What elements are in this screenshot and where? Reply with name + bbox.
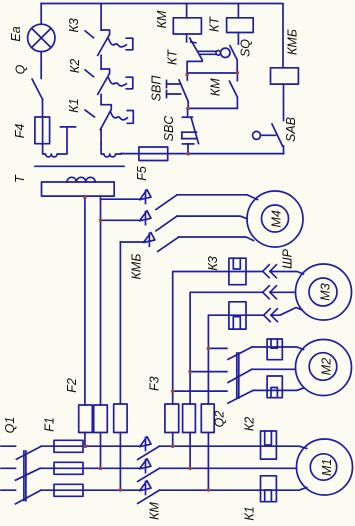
svg-text:SAB: SAB	[284, 117, 298, 142]
wire secondary column A	[84, 196, 86, 405]
wire M3 row 2 elbow	[190, 292, 262, 404]
wire M3 row 3 elbow	[208, 315, 263, 404]
wire	[100, 55, 102, 69]
switch Q2 blade 2	[228, 369, 252, 382]
contact K3	[85, 30, 133, 55]
contact KMB 1	[140, 190, 178, 210]
svg-text:К3: К3	[67, 18, 81, 32]
fuse F2-2	[94, 405, 108, 433]
switch Q	[32, 52, 43, 117]
wire	[41, 489, 140, 491]
wire	[40, 467, 140, 469]
svg-text:F2: F2	[65, 378, 79, 393]
svg-text:М2: М2	[320, 358, 334, 375]
svg-text:Ea: Ea	[9, 26, 23, 41]
motor M1	[297, 439, 353, 495]
switch Q1 blade 1	[16, 446, 41, 459]
svg-text:К1: К1	[67, 98, 81, 112]
heater K3 element 1	[229, 258, 246, 285]
heater K3 element 2	[229, 302, 246, 329]
wire to motor M4 phase 1	[177, 195, 257, 200]
svg-text:КМ: КМ	[155, 10, 169, 28]
svg-text:F3: F3	[148, 376, 162, 391]
transformer T core line	[35, 165, 124, 167]
svg-text:М3: М3	[319, 283, 333, 300]
wire Q2 tap row 1	[208, 347, 227, 349]
svg-text:Q: Q	[14, 64, 28, 74]
wire F2 outputs	[85, 433, 121, 490]
connector ShR pins row 1	[263, 265, 277, 278]
coil KM	[173, 4, 201, 35]
motor M2	[296, 340, 352, 396]
wire to motor M4 phase 2	[177, 216, 247, 219]
switch Q1 blade 3	[16, 490, 42, 504]
contact K2	[85, 69, 133, 94]
switch Q1 blade 2	[16, 468, 41, 480]
wire F3 outputs	[173, 433, 209, 490]
switch Q2 linkage bar	[237, 353, 239, 398]
wire row 1 to K1 heater	[159, 446, 306, 448]
wire into M3	[271, 308, 302, 316]
svg-text:F4: F4	[13, 124, 27, 139]
svg-text:К3: К3	[206, 256, 220, 270]
fuse F3-2	[183, 404, 196, 433]
coil KMB	[271, 68, 299, 121]
button SBC	[182, 109, 199, 154]
svg-text:КМ: КМ	[148, 502, 162, 520]
wire KMB contact row 3	[120, 241, 143, 243]
fuse F2-3	[114, 404, 127, 433]
wire to motor M4 phase 3	[179, 237, 254, 241]
wire	[100, 130, 102, 144]
switch Q1 linkage bar	[24, 451, 26, 501]
contact KM main 1	[138, 437, 160, 460]
svg-text:К1: К1	[243, 506, 257, 520]
connector ShR pins row 2	[263, 286, 277, 299]
svg-text:КМБ: КМБ	[130, 254, 144, 280]
contact KM main 3	[138, 481, 160, 504]
svg-text:КТ: КТ	[208, 16, 222, 32]
fuse F2-1	[79, 405, 93, 433]
contact KMB 2	[140, 211, 178, 231]
fuse F4	[35, 117, 50, 144]
wire	[41, 445, 140, 447]
wire into M3	[270, 291, 295, 293]
wire	[253, 388, 304, 390]
svg-text:Q1: Q1	[3, 417, 17, 434]
fuse F3-1	[165, 404, 179, 433]
fuse F1-2	[54, 462, 83, 474]
svg-text:К2: К2	[68, 59, 82, 73]
svg-text:ШР: ШР	[281, 248, 295, 269]
wire KMB contact row 1	[101, 198, 140, 200]
fuse F1-1	[54, 440, 83, 452]
wire Q2 tap row 2	[190, 371, 227, 373]
svg-text:T: T	[13, 174, 27, 183]
fuse F5	[139, 147, 168, 161]
svg-text:SQ: SQ	[239, 39, 253, 57]
wire	[252, 347, 304, 350]
svg-text:SBП: SBП	[150, 75, 164, 102]
node K-chain bus from top	[100, 4, 102, 31]
svg-text:КТ: КТ	[166, 49, 180, 65]
switch SAB	[253, 124, 284, 154]
transformer T secondary	[42, 177, 115, 196]
limit switch SQ	[230, 33, 238, 73]
wire KMB contact row 2	[101, 219, 140, 221]
wire Q2 tap row 3	[173, 390, 227, 392]
heater K1 element 2	[261, 476, 277, 502]
switch Q2 blade 3	[228, 390, 253, 403]
node control (wire KT/KM junction row)	[187, 72, 237, 74]
contact K1	[85, 105, 133, 130]
wire input phase 2	[1, 467, 16, 469]
heater K2 element 1	[267, 339, 282, 360]
motor M4	[247, 191, 303, 247]
svg-text:М1: М1	[320, 459, 334, 476]
wire row 3 to K1 heater	[159, 488, 306, 491]
contact KMB 3	[144, 233, 179, 252]
wire column C	[119, 242, 121, 404]
wire into M3	[270, 272, 304, 275]
heater K1 element 1	[261, 431, 277, 459]
button SBP with KM aux contact loop	[167, 73, 189, 109]
switch Q2 blade 1	[228, 347, 252, 359]
svg-text:К2: К2	[243, 417, 257, 431]
transformer T primary right winding	[101, 144, 121, 157]
wire row 2 to M1	[159, 467, 296, 469]
svg-text:F1: F1	[43, 417, 57, 432]
svg-text:F5: F5	[135, 166, 149, 181]
wire into M2 middle	[252, 368, 295, 370]
connector ShR pins row 3	[264, 309, 278, 322]
svg-text:Q2: Q2	[213, 411, 227, 428]
svg-text:SBC: SBC	[162, 115, 176, 142]
contact KT (time, below KM coil)	[187, 34, 230, 73]
svg-text:КМБ: КМБ	[286, 29, 300, 55]
lamp Ea	[28, 4, 55, 52]
wire secondary column B	[100, 196, 102, 405]
contact KM main 2	[138, 459, 160, 482]
wire input phase 1	[1, 445, 16, 447]
transformer T primary left winding	[43, 127, 76, 157]
wire control top bus	[41, 4, 283, 68]
svg-text:КМ: КМ	[209, 78, 223, 96]
coil KT	[227, 4, 254, 33]
wire	[100, 94, 102, 104]
contact KM aux (self-hold)	[188, 73, 237, 108]
svg-text:М4: М4	[270, 210, 284, 227]
fuse F1-3	[54, 484, 83, 496]
wire control bottom bus	[122, 153, 284, 155]
motor M3	[296, 264, 352, 320]
fuse F3-3	[201, 404, 214, 433]
wire M3 row 1 elbow	[173, 272, 263, 405]
wire input phase 3	[1, 489, 16, 491]
heater K2 element 2	[267, 376, 282, 398]
